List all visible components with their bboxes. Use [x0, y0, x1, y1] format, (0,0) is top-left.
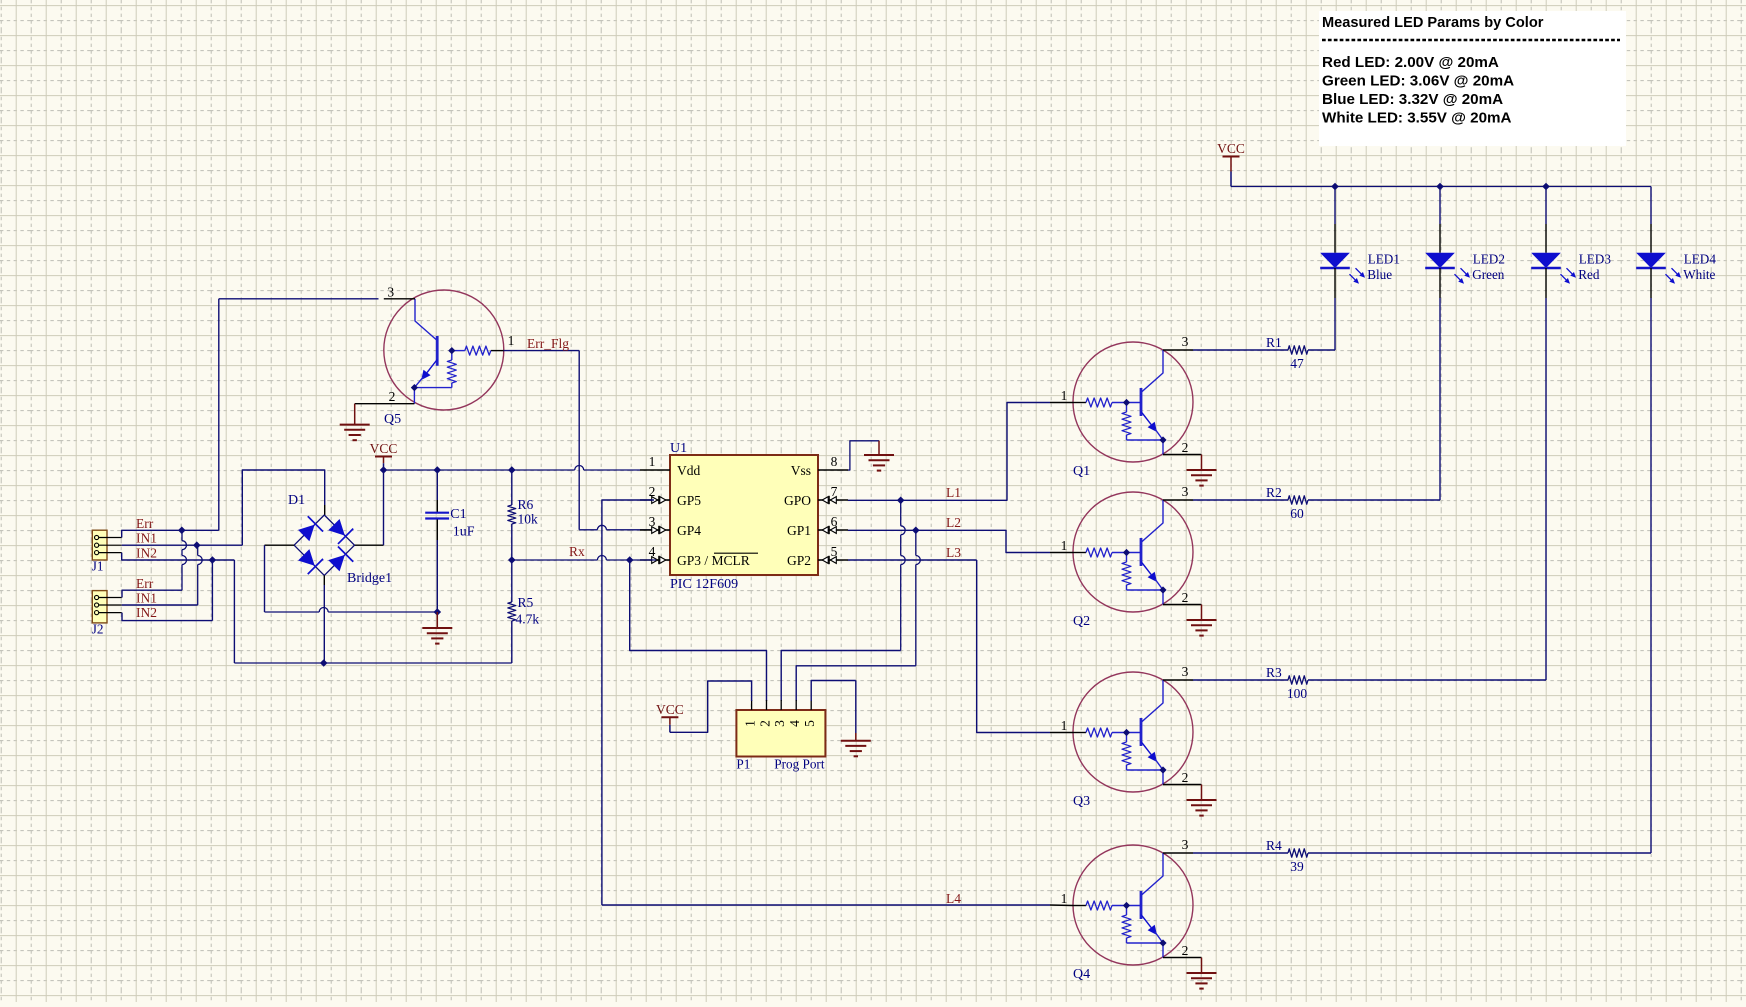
pin 7 output arrows — [819, 496, 839, 504]
wire Err_Flg to GP4 — [579, 529, 597, 531]
pin 7 GPO stub — [818, 499, 848, 501]
junction LED3 bus — [1542, 183, 1550, 191]
pin 1 Vdd stub — [640, 469, 670, 471]
wire prog port pin 5 to ground — [811, 681, 856, 702]
junction bridge bottom — [320, 659, 328, 667]
svg-text:R4: R4 — [1266, 838, 1282, 853]
transistor Q5 — [355, 290, 504, 410]
svg-text:4: 4 — [787, 720, 802, 727]
junction R6/R5 (Rx) — [508, 556, 516, 564]
resistor R5 — [508, 560, 516, 663]
note box background — [1319, 11, 1626, 146]
pin 2 GP5 stub — [640, 499, 670, 501]
LED LED2 — [1425, 224, 1470, 298]
svg-text:2: 2 — [1182, 770, 1189, 785]
svg-text:L2: L2 — [946, 515, 961, 530]
junction Q3 base — [1123, 729, 1130, 736]
svg-text:Q5: Q5 — [384, 412, 401, 427]
svg-text:1: 1 — [1061, 718, 1068, 733]
svg-text:2: 2 — [1182, 943, 1189, 958]
svg-text:IN1: IN1 — [136, 591, 157, 606]
wire net IN2 (J2 pin3) — [122, 613, 212, 621]
ground C1 — [422, 627, 452, 629]
svg-text:Blue LED: 3.32V @ 20mA: Blue LED: 3.32V @ 20mA — [1322, 91, 1503, 108]
wire LED4 anode — [1650, 187, 1652, 225]
svg-text:Q1: Q1 — [1073, 464, 1090, 479]
wire net Err (J1 pin1) — [122, 530, 219, 537]
svg-text:J1: J1 — [92, 559, 104, 574]
svg-text:IN2: IN2 — [136, 605, 157, 620]
junction Q1 emitter — [1159, 436, 1166, 443]
pin 5 (P1) stub — [810, 700, 812, 710]
wire bridge bottom — [323, 575, 325, 585]
resistor R1 — [1193, 346, 1335, 354]
junction Q2 base — [1123, 549, 1130, 556]
svg-text:R6: R6 — [518, 497, 534, 512]
pin circle (J2) — [95, 603, 99, 607]
svg-text:1uF: 1uF — [453, 525, 475, 540]
bridge rectifier D1 — [294, 515, 354, 575]
junction Q2 emitter — [1159, 586, 1166, 593]
pin 5 GP2 stub — [818, 559, 848, 561]
wire VCC LED bus — [1231, 186, 1651, 188]
ground Q4 — [1187, 972, 1217, 974]
svg-text:GP2: GP2 — [787, 553, 811, 568]
wire Q5 pin1 net Err_Flg — [504, 350, 580, 352]
resistor R4 — [1193, 849, 1651, 857]
wire LED3 anode — [1545, 187, 1547, 225]
junction IN1 — [193, 541, 201, 549]
svg-text:Q2: Q2 — [1073, 614, 1090, 629]
wire net L2 (GP1) — [848, 529, 916, 531]
svg-text:Red LED: 2.00V @ 20mA: Red LED: 2.00V @ 20mA — [1322, 54, 1499, 71]
LED LED1 — [1320, 224, 1365, 298]
svg-text:4: 4 — [649, 544, 656, 559]
bridge diode upper-left — [298, 525, 315, 542]
transistor Q3 — [1073, 672, 1202, 792]
pin circle (J1) — [95, 551, 99, 555]
svg-text:Err: Err — [136, 516, 154, 531]
pin circle (J2) — [95, 611, 99, 615]
svg-text:J2: J2 — [92, 621, 104, 636]
svg-text:LED3: LED3 — [1579, 252, 1612, 267]
svg-text:60: 60 — [1290, 506, 1304, 521]
svg-text:2: 2 — [1182, 440, 1189, 455]
pin 2 (P1) stub — [766, 700, 768, 710]
svg-text:Rx: Rx — [569, 544, 585, 559]
svg-text:3: 3 — [387, 285, 394, 300]
svg-text:White: White — [1683, 267, 1715, 282]
wire net L1 (GPO) — [848, 499, 901, 501]
svg-text:1: 1 — [1061, 538, 1068, 553]
svg-text:Q4: Q4 — [1073, 967, 1090, 982]
bridge diode upper-right — [328, 519, 345, 536]
svg-text:VCC: VCC — [370, 441, 398, 456]
junction C1 top — [434, 466, 442, 474]
svg-text:LED2: LED2 — [1473, 252, 1505, 267]
svg-text:3: 3 — [1182, 664, 1189, 679]
wire LED3 cathode to R3 — [1545, 298, 1547, 680]
pin 4 GP3 stub — [640, 559, 670, 561]
svg-text:R2: R2 — [1266, 485, 1282, 500]
connector J2 body — [92, 591, 107, 623]
wire C1 to ground — [436, 612, 438, 628]
svg-text:Q3: Q3 — [1073, 794, 1090, 809]
svg-text:D1: D1 — [288, 493, 305, 508]
svg-text:Green: Green — [1472, 267, 1505, 282]
junction LED1 bus — [1331, 183, 1339, 191]
svg-text:PIC 12F609: PIC 12F609 — [670, 577, 738, 592]
svg-text:1: 1 — [649, 454, 656, 469]
svg-text:39: 39 — [1290, 859, 1304, 874]
junction Rx/GP3 — [626, 556, 634, 564]
junction Q4 base — [1123, 902, 1130, 909]
pin 8 Vss stub — [818, 469, 848, 471]
svg-text:LED1: LED1 — [1368, 252, 1400, 267]
junction R6 top — [508, 466, 516, 474]
wire net Err (J2 pin1) — [122, 590, 182, 597]
bridge diode lower-left — [298, 549, 315, 566]
junction IN2 — [209, 556, 217, 564]
resistor R3 — [1193, 676, 1546, 684]
wire LED2 cathode to R2 — [1439, 298, 1441, 500]
wire L2 to Q2 — [916, 530, 1050, 552]
svg-text:3: 3 — [1182, 837, 1189, 852]
junction Q5 base — [448, 347, 455, 354]
wire L2 to prog port pin 4 — [915, 530, 917, 555]
wire IN1 to bridge top — [242, 470, 324, 545]
svg-text:100: 100 — [1287, 686, 1308, 701]
IC U1 body — [670, 455, 818, 575]
svg-text:7: 7 — [831, 484, 838, 499]
pin circle (J1) — [95, 543, 99, 547]
svg-text:5: 5 — [831, 544, 838, 559]
wire Rx to prog port pin 2 — [630, 560, 767, 701]
svg-text:4.7k: 4.7k — [516, 612, 540, 627]
svg-text:Red: Red — [1578, 267, 1600, 282]
svg-text:P1: P1 — [736, 757, 750, 772]
pin 6 output arrows — [819, 526, 839, 534]
ground Q3 — [1187, 799, 1217, 801]
junction Err — [178, 527, 186, 535]
pin 3 input arrows — [650, 526, 670, 534]
wire net L4 (GP5) — [602, 500, 654, 905]
svg-text:Green LED: 3.06V @ 20mA: Green LED: 3.06V @ 20mA — [1322, 73, 1514, 90]
ground Q5 — [340, 424, 370, 426]
wire bottom rail IN2 — [234, 662, 511, 664]
svg-text:1: 1 — [1061, 891, 1068, 906]
svg-text:Bridge1: Bridge1 — [347, 571, 392, 586]
junction Q3 emitter — [1159, 766, 1166, 773]
svg-text:R3: R3 — [1266, 665, 1282, 680]
wire net L3 (GP2) — [848, 559, 977, 561]
pin circle (J2) — [95, 595, 99, 599]
svg-text:LED4: LED4 — [1684, 252, 1717, 267]
wire Vss to ground — [848, 441, 879, 470]
wire L1 to Q1 — [901, 403, 1050, 501]
ground Q2 — [1187, 619, 1217, 621]
svg-text:Vdd: Vdd — [677, 463, 700, 478]
pin 2 input arrows — [650, 496, 670, 504]
wire LED4 cathode to R4 — [1650, 298, 1652, 853]
pin 1 (P1) stub — [751, 700, 753, 710]
pin 3 (P1) stub — [780, 700, 782, 710]
wire Q4 emitter to ground — [1201, 958, 1203, 974]
connector P1 body — [736, 710, 825, 757]
svg-text:5: 5 — [802, 720, 817, 727]
svg-text:White LED: 3.55V @ 20mA: White LED: 3.55V @ 20mA — [1322, 110, 1512, 127]
junction Q4 emitter — [1159, 939, 1166, 946]
wire LED1 anode — [1334, 187, 1336, 225]
wire net Rx — [512, 559, 598, 561]
bridge diode lower-right — [328, 555, 345, 572]
svg-text:Err_Flg: Err_Flg — [527, 336, 569, 351]
wire prog port pin 1 to VCC — [670, 681, 752, 732]
wire L3 to Q3 — [977, 560, 1050, 733]
wire Q2 emitter to ground — [1201, 605, 1203, 621]
svg-text:R1: R1 — [1266, 335, 1282, 350]
pin 6 GP1 stub — [818, 529, 848, 531]
svg-text:8: 8 — [831, 454, 838, 469]
svg-text:IN2: IN2 — [136, 546, 157, 561]
svg-text:1: 1 — [743, 720, 758, 727]
capacitor C1 — [425, 470, 449, 612]
wire Vdd rail — [384, 469, 575, 471]
svg-text:1: 1 — [1061, 388, 1068, 403]
svg-text:Vss: Vss — [791, 463, 811, 478]
svg-text:GPO: GPO — [784, 493, 811, 508]
svg-text:3: 3 — [772, 720, 787, 727]
ground Vss — [864, 454, 894, 456]
transistor Q4 — [1073, 845, 1202, 965]
svg-text:C1: C1 — [450, 507, 466, 522]
wire Q5 collector net Err — [219, 298, 379, 300]
svg-text:2: 2 — [389, 389, 396, 404]
svg-text:U1: U1 — [670, 441, 687, 456]
svg-text:10k: 10k — [518, 512, 539, 527]
transistor Q1 — [1073, 342, 1202, 462]
svg-text:47: 47 — [1290, 356, 1304, 371]
wire bridge right to VCC rail — [354, 544, 384, 546]
svg-text:VCC: VCC — [656, 702, 684, 717]
note separator dashes — [1322, 39, 1620, 42]
svg-text:1: 1 — [508, 333, 515, 348]
wire bridge left to ground net — [265, 544, 295, 546]
wire net IN1 (J2 pin2) — [122, 604, 198, 606]
svg-text:Measured LED Params by Color: Measured LED Params by Color — [1322, 15, 1544, 31]
svg-text:GP4: GP4 — [677, 523, 701, 538]
junction L2 — [912, 527, 920, 535]
junction C1 bottom — [434, 608, 442, 616]
wire LED2 anode — [1439, 187, 1441, 225]
wire L1 to prog port pin 3 — [900, 500, 902, 526]
wire Q5 emitter to ground — [354, 404, 356, 425]
svg-text:3: 3 — [1182, 484, 1189, 499]
LED LED3 — [1531, 224, 1576, 298]
ground Q1 — [1187, 469, 1217, 471]
pin 3 GP4 stub — [640, 529, 670, 531]
svg-text:Blue: Blue — [1367, 267, 1392, 282]
svg-text:IN1: IN1 — [136, 531, 157, 546]
ground prog port — [841, 740, 871, 742]
svg-text:GP1: GP1 — [787, 523, 811, 538]
svg-text:L1: L1 — [946, 485, 961, 500]
transistor Q2 — [1073, 492, 1202, 612]
LED LED4 — [1636, 224, 1681, 298]
wire Q1 emitter to ground — [1201, 455, 1203, 471]
svg-text:Err: Err — [136, 576, 154, 591]
pin 4 input arrows — [650, 556, 670, 564]
svg-text:2: 2 — [649, 484, 656, 499]
junction Q1 base — [1123, 399, 1130, 406]
junction VCC rail — [380, 466, 388, 474]
svg-text:GP5: GP5 — [677, 493, 701, 508]
resistor R6 — [508, 470, 516, 560]
MCLR overline — [714, 552, 758, 554]
svg-text:L4: L4 — [946, 891, 961, 906]
svg-text:2: 2 — [758, 720, 773, 727]
svg-text:Prog Port: Prog Port — [774, 757, 825, 772]
wire LED1 cathode to R1 — [1334, 298, 1336, 350]
pin circle (J1) — [95, 535, 99, 539]
svg-text:VCC: VCC — [1217, 141, 1245, 156]
svg-text:R5: R5 — [518, 595, 534, 610]
wire Q3 emitter to ground — [1201, 785, 1203, 801]
wire net IN1 (J1 pin2) — [122, 544, 243, 546]
wire net IN2 (J1 pin3) — [122, 553, 235, 560]
junction LED2 bus — [1436, 183, 1444, 191]
junction L1 — [897, 497, 905, 505]
svg-text:6: 6 — [831, 514, 838, 529]
svg-text:2: 2 — [1182, 590, 1189, 605]
svg-text:3: 3 — [649, 514, 656, 529]
junction Q5 emitter — [411, 384, 418, 391]
resistor R2 — [1193, 496, 1440, 504]
svg-text:L3: L3 — [946, 545, 961, 560]
svg-text:3: 3 — [1182, 334, 1189, 349]
connector J1 body — [92, 530, 107, 560]
svg-text:GP3 / MCLR: GP3 / MCLR — [677, 553, 750, 568]
pin 4 (P1) stub — [795, 700, 797, 710]
pin 5 output arrows — [819, 556, 839, 564]
